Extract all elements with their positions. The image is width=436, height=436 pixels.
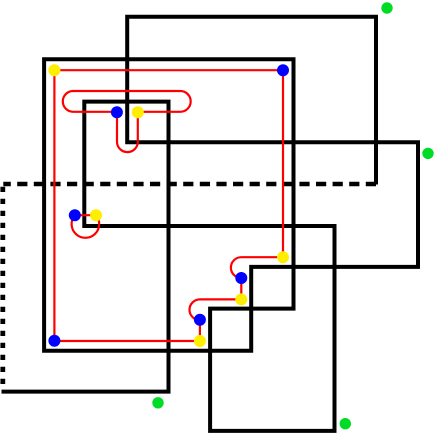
blue dot 5	[194, 314, 206, 326]
green dot 4	[340, 418, 351, 429]
yellow dot 5	[235, 293, 247, 305]
yellow dot 4	[277, 251, 289, 263]
black spiral curve (dashed horizontal part)	[3, 182, 376, 187]
yellow dot 6	[194, 335, 206, 347]
blue dot 4	[235, 272, 247, 284]
blue dot 1	[277, 64, 289, 76]
green dot 2	[422, 148, 433, 159]
yellow dot 2	[132, 106, 144, 118]
red curve 3 (chord and loop)	[72, 215, 100, 238]
green dot 1	[381, 2, 392, 13]
green dot 3	[152, 397, 163, 408]
blue dot 6	[48, 335, 60, 347]
blue dot 3	[69, 209, 81, 221]
red curve 2 (capsule with U detour)	[63, 91, 191, 152]
blue dot 2	[111, 106, 123, 118]
yellow dot 3	[90, 209, 102, 221]
yellow dot 1	[48, 64, 60, 76]
black spiral curve (dashed vertical part)	[0, 187, 5, 385]
red curve 1 (large loop)	[54, 70, 283, 341]
